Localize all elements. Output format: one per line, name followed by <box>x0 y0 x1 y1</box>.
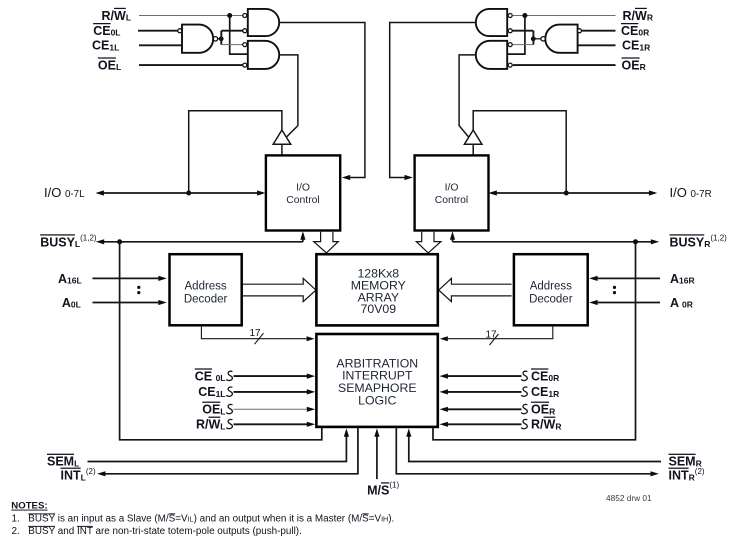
svg-text:1.BUSY is an input as a Slave: 1.BUSY is an input as a Slave (M/S=VIL) … <box>12 513 395 524</box>
ellipsis dots left <box>137 286 140 289</box>
wire buffer U1R input <box>472 144 474 155</box>
node I/O-R junction <box>564 191 569 196</box>
wire INT-R from arbiter <box>396 427 651 474</box>
wire R/W-L branch to gate G3L <box>230 16 248 55</box>
svg-text:2.BUSY and INT are non-tri-sta: 2.BUSY and INT are non-tri-state totem-p… <box>12 526 302 537</box>
wire R/W-R branch to gate G3R <box>507 16 525 55</box>
wire CE0-R <box>581 30 615 32</box>
and gate G2L <box>248 9 279 36</box>
wire G1R-out to G3R input <box>511 44 533 46</box>
wire A16R <box>597 277 660 279</box>
bus arrow I/O-left to memory <box>314 232 339 253</box>
svg-text:Control: Control <box>435 195 469 206</box>
squiggle CE1-L <box>226 387 232 396</box>
and gate G3R <box>476 41 507 69</box>
svg-text:NOTES:: NOTES: <box>11 501 47 512</box>
bus arrow I/O-right to memory <box>416 232 441 253</box>
bus arrow decoder-left to memory <box>243 278 316 301</box>
wire SEM-R to arbiter <box>409 436 661 462</box>
wire CE1-L <box>139 44 182 46</box>
wire BUSY-R <box>453 241 652 243</box>
wire G1R-out to G2R input <box>511 30 533 32</box>
squiggle CE1-R <box>521 387 527 396</box>
wire R/W-L <box>139 15 243 17</box>
node BUSY-R junction <box>633 239 638 244</box>
nand gate G1R <box>545 25 577 53</box>
wire G2R output to I/O control right <box>390 23 476 178</box>
squiggle OE-L <box>226 404 232 413</box>
wire R/W-R <box>513 15 616 17</box>
squiggle CE0-L <box>226 371 232 380</box>
wire CE1-R <box>578 44 616 46</box>
wire I/O bus left <box>103 192 258 194</box>
svg-text:70V09: 70V09 <box>361 302 397 316</box>
wire G3R output to buffer U1R enable <box>459 55 476 137</box>
wire BUSY-L to arbiter <box>120 242 322 440</box>
and gate G3L <box>248 41 279 69</box>
svg-text:I/O: I/O <box>296 183 310 194</box>
node R/W-L junction <box>227 13 232 18</box>
wire M/S input <box>376 436 378 479</box>
wire CE0-R to arbiter <box>447 375 521 377</box>
wire G1L-out to G3L input <box>221 44 242 46</box>
svg-text:Address: Address <box>185 281 227 293</box>
wire BUSY-L up into I/O control left <box>302 239 304 242</box>
wire I/O bus right <box>491 192 650 194</box>
node G1R output junction <box>535 38 541 40</box>
block I/O control right U2R <box>415 155 489 230</box>
block address decoder right U3R <box>514 254 588 325</box>
buffer U1R <box>464 130 482 144</box>
bus 17 left <box>201 327 306 339</box>
wire G3L output to buffer U1L enable <box>279 55 298 137</box>
wire INT-L from arbiter <box>105 427 358 474</box>
wire BUSY-L <box>104 241 303 243</box>
node I/O-L junction <box>186 191 191 196</box>
wire SEM-L to arbiter <box>88 436 347 462</box>
nand gate G1L <box>182 25 213 53</box>
wire BUSY-R up into I/O control right <box>452 239 454 242</box>
svg-text:Decoder: Decoder <box>529 293 573 305</box>
wire buffer U1L output to I/O bus <box>189 111 282 193</box>
wire A16L <box>93 277 160 279</box>
ellipsis dots right <box>613 286 616 289</box>
svg-text:I/O: I/O <box>445 183 459 194</box>
svg-text:Address: Address <box>530 281 572 293</box>
node BUSY-L junction <box>117 239 122 244</box>
wire OE-L <box>139 64 243 66</box>
wire CE0-L to arbiter <box>234 375 308 377</box>
wire R/W-L to arbiter <box>234 423 308 425</box>
wire A0L <box>93 302 160 304</box>
svg-text:17: 17 <box>250 328 262 339</box>
wire BUSY-R to arbiter <box>433 242 636 440</box>
wire R/W-R to arbiter <box>447 423 521 425</box>
wire G1L-out to G2L input <box>221 30 242 32</box>
wire OE-R to arbiter <box>447 408 521 410</box>
wire CE1-R to arbiter <box>447 391 521 393</box>
svg-text:LOGIC: LOGIC <box>358 394 396 408</box>
svg-text:17: 17 <box>486 330 498 341</box>
node G1L output junction <box>218 38 220 40</box>
block I/O control left U2L <box>266 155 340 230</box>
squiggle R/W-R <box>521 419 527 428</box>
svg-text:Decoder: Decoder <box>184 293 228 305</box>
node R/W-R junction <box>522 13 527 18</box>
wire buffer U1L input <box>281 144 283 155</box>
wire G2L output to I/O control left <box>279 23 365 178</box>
buffer U1L <box>273 130 291 144</box>
squiggle CE0-R <box>521 371 527 380</box>
bus arrow decoder-right to memory <box>439 278 512 301</box>
svg-text:4852 drw 01: 4852 drw 01 <box>606 493 652 503</box>
wire OE-L to arbiter <box>234 408 308 410</box>
block address decoder left U3L <box>170 254 242 325</box>
wire buffer U1R output to I/O bus <box>473 111 566 193</box>
and gate G2R <box>476 9 507 36</box>
block memory array U4 <box>316 254 437 325</box>
wire CE0-L <box>138 30 178 32</box>
wire CE1-L to arbiter <box>234 391 308 393</box>
wire OE-R <box>513 64 616 66</box>
svg-text:Control: Control <box>286 195 320 206</box>
squiggle R/W-L <box>226 419 232 428</box>
bus 17 right <box>447 327 552 339</box>
wire A0R <box>597 302 660 304</box>
squiggle OE-R <box>521 404 527 413</box>
block arbitration logic U5 <box>316 334 437 427</box>
